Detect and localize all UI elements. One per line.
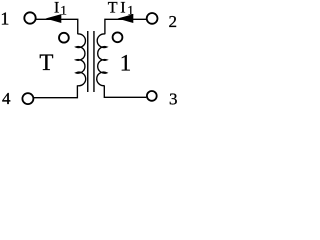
- svg-text:T: T: [108, 0, 118, 17]
- primary winding (left): [76, 34, 86, 86]
- polarity dot left: [59, 33, 69, 43]
- svg-text:3: 3: [169, 90, 178, 108]
- current arrow I1 (points left): [46, 14, 62, 23]
- terminal 1: [24, 12, 35, 23]
- svg-text:4: 4: [2, 89, 11, 108]
- terminal 3: [147, 91, 157, 101]
- core line left: [87, 31, 89, 92]
- secondary winding (right): [97, 34, 107, 86]
- svg-text:1: 1: [0, 8, 9, 28]
- wire top-right: [105, 19, 147, 34]
- terminal 2: [147, 13, 158, 24]
- wire top-left: [36, 19, 78, 34]
- svg-text:I: I: [120, 0, 125, 17]
- wire bottom-right: [104, 85, 146, 97]
- svg-text:1: 1: [60, 2, 67, 17]
- current arrow T I1 (points left): [118, 14, 134, 23]
- core line right: [93, 31, 95, 92]
- svg-text:T: T: [39, 50, 53, 75]
- svg-text:I: I: [54, 0, 59, 17]
- terminal 4: [22, 93, 33, 104]
- polarity dot right: [113, 32, 123, 42]
- svg-text:2: 2: [169, 12, 178, 31]
- svg-text:1: 1: [120, 51, 132, 76]
- wire bottom-left: [34, 85, 77, 97]
